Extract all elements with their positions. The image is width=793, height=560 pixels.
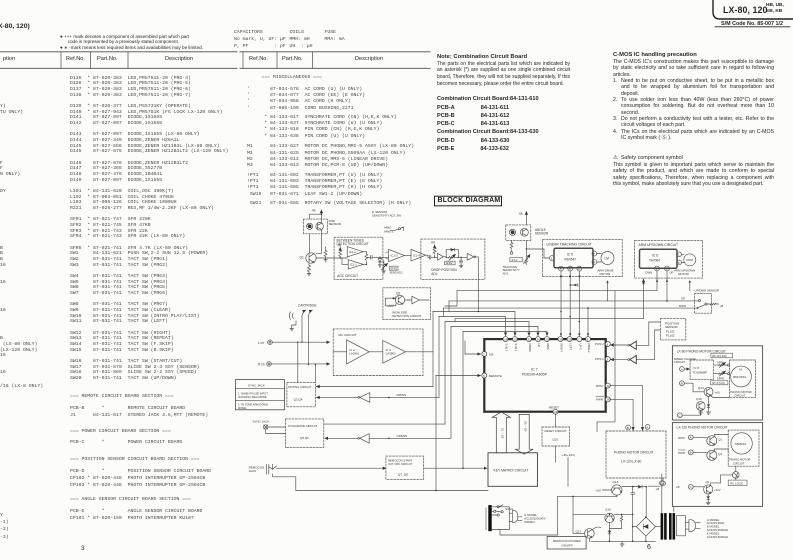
output comparator triangle with bubble	[458, 253, 478, 311]
svg-text:JACK: JACK	[249, 469, 257, 473]
svg-text:1: 1	[551, 256, 553, 260]
ST-4 adj label	[711, 381, 728, 385]
svg-text:DWN: DWN	[646, 271, 653, 275]
input resistor	[385, 298, 396, 306]
svg-text:+B: +B	[312, 208, 316, 212]
smoothing cap to ground	[459, 257, 462, 268]
table 2 header	[249, 56, 268, 62]
svg-text:'L' IN TONE ARM DOWN: 'L' IN TONE ARM DOWN	[238, 403, 268, 407]
svg-text:UP: UP	[670, 271, 674, 275]
SFR5 variable resistor	[714, 371, 730, 380]
svg-text:Q3,Q4: Q3,Q4	[294, 397, 303, 401]
BETWEEN TUNES DETECTION CIRCUIT dashed box	[334, 237, 383, 279]
C-MOS column	[613, 52, 697, 58]
svg-text:+B: +B	[676, 485, 680, 489]
drop position adj dashed box	[421, 239, 485, 279]
svg-text:MC CIRCUIT: MC CIRCUIT	[339, 333, 357, 337]
svg-text:MOTOR: MOTOR	[678, 272, 689, 276]
inverter OPENS	[325, 434, 451, 444]
svg-text:C: C	[679, 414, 681, 418]
muting input wire from bus	[317, 386, 434, 388]
svg-text:DWNS: DWNS	[528, 344, 532, 352]
tracking sensitivity adj	[503, 240, 530, 275]
+B resistor into AGC	[337, 244, 341, 259]
svg-text:LX-120 PHONO MOTOR CIRCUIT: LX-120 PHONO MOTOR CIRCUIT	[677, 425, 728, 429]
svg-text:PWR: PWR	[596, 398, 604, 402]
IC8 dashed	[690, 360, 714, 379]
svg-text:IC 7: IC 7	[531, 368, 538, 372]
svg-text:SENSITIVITY ADJ. SW: SENSITIVITY ADJ. SW	[372, 213, 401, 217]
svg-text:SENS ADJ.: SENS ADJ.	[389, 271, 403, 275]
svg-text:UDM: UDM	[686, 258, 693, 262]
svg-text:PWR: PWR	[678, 451, 685, 455]
svg-text:C: C	[690, 485, 692, 489]
svg-text:REMOCON POWER: REMOCON POWER	[553, 539, 582, 543]
svg-text:+B: +B	[720, 304, 724, 308]
power transformer PT1 core bars	[662, 506, 686, 538]
svg-text:Q2: Q2	[396, 291, 400, 295]
motor dashed box with MMI-5P2A	[730, 360, 756, 398]
svg-text:M: M	[740, 367, 743, 371]
hollow arrow up	[492, 412, 510, 453]
svg-text:4: 4	[593, 260, 595, 264]
remocon power label box	[547, 537, 586, 550]
svg-text:B: B	[627, 426, 629, 430]
svg-text:Q10: Q10	[553, 438, 559, 442]
angle sensor photo interrupter	[506, 225, 549, 241]
R ch jack	[258, 362, 330, 367]
svg-text:SFR5: SFR5	[717, 376, 725, 380]
left pins MS / REMOTE	[482, 352, 502, 379]
svg-text:1: 1	[678, 253, 680, 257]
svg-text:REMOTE: REMOTE	[489, 374, 502, 378]
svg-text:IC1-2: IC1-2	[349, 250, 356, 254]
main +B rail vertical	[645, 486, 647, 517]
IC6 TA7064	[640, 249, 678, 268]
svg-text:RIGHT: RIGHT	[560, 344, 564, 353]
svg-text:IN PHONO REC MODE: IN PHONO REC MODE	[238, 395, 267, 399]
svg-text:MMI-5P2A: MMI-5P2A	[733, 375, 746, 379]
pin A	[680, 367, 690, 372]
svg-text:+5V: +5V	[595, 489, 602, 493]
pin B	[680, 381, 705, 392]
svg-text:UP-2: UP-2	[578, 344, 582, 351]
pin C	[677, 410, 700, 417]
pins bottom 5,6,2	[559, 266, 564, 271]
svg-text:ST-2: ST-2	[512, 258, 518, 262]
svg-text:DWN: DWN	[679, 304, 686, 308]
coupling capacitor	[366, 256, 376, 260]
transistor Q16	[696, 397, 705, 410]
svg-text:IC1-3: IC1-3	[391, 254, 398, 258]
PC LOCK label	[728, 480, 747, 485]
svg-text:CUT OFF CIRCUIT: CUT OFF CIRCUIT	[388, 462, 412, 466]
svg-text:MWNS: MWNS	[397, 393, 407, 397]
svg-text:Q4: Q4	[706, 480, 710, 484]
model number rounded frame	[713, 0, 793, 19]
Note column	[437, 54, 527, 60]
top pin labels (vertical)	[505, 344, 592, 353]
bottom rail + ground	[591, 541, 655, 547]
svg-text:MS: MS	[489, 352, 494, 356]
wire sensor to Q1	[310, 230, 322, 253]
svg-text:LINEAR TRACKING CIRCUIT: LINEAR TRACKING CIRCUIT	[547, 242, 592, 246]
table 1 header	[3, 56, 15, 62]
svg-text:MODE: MODE	[238, 406, 246, 410]
svg-text:UP/DWN SENSOR: UP/DWN SENSOR	[695, 289, 720, 293]
transistor Q17	[573, 496, 601, 541]
SFR2 variable resistor	[445, 254, 459, 265]
voltage selector SW21	[486, 505, 546, 530]
svg-text:UP: UP	[537, 344, 541, 348]
SFR6 variable resistor	[714, 361, 730, 368]
model number box top right	[723, 5, 768, 15]
transistor Q14	[698, 386, 730, 402]
shunt diode to ground	[376, 257, 388, 267]
sync jack legend table	[235, 380, 284, 410]
emitter resistor of Q1	[307, 263, 310, 276]
sync jack symbol	[253, 420, 286, 434]
svg-text:Q16: Q16	[696, 397, 702, 401]
svg-text:Q1: Q1	[300, 255, 304, 259]
svg-text:+6V: +6V	[715, 390, 720, 394]
svg-text:S-IN 2: S-IN 2	[505, 344, 509, 352]
svg-text:MUTING CIRCUIT: MUTING CIRCUIT	[288, 385, 311, 389]
wires from bottom pins down to IC7	[560, 271, 589, 336]
pin 1 left	[549, 256, 554, 261]
svg-text:SENSOR: SENSOR	[535, 232, 549, 236]
AC plug symbol	[685, 518, 728, 539]
svg-text:ADJ.: ADJ.	[503, 272, 509, 276]
pins 2,3 bottom	[655, 266, 660, 271]
PWR wire to phono motor box (B)	[610, 399, 633, 430]
svg-text:SYNCHRATE CIRCUIT: SYNCHRATE CIRCUIT	[288, 424, 317, 428]
svg-text:PD6100-A605P: PD6100-A605P	[522, 373, 548, 377]
pin C +B (120)	[676, 484, 704, 489]
arm up/down motor UDM	[674, 254, 696, 276]
svg-text:+B(+12V): +B(+12V)	[562, 453, 575, 457]
bus wires to IC7 top pins	[433, 311, 580, 469]
L ch jack	[258, 340, 330, 345]
svg-text:UP: UP	[681, 297, 685, 301]
diode below Q15	[608, 523, 611, 542]
resistor after IC1-2	[363, 252, 368, 265]
svg-text:ARM UP/DOWN CIRCUIT: ARM UP/DOWN CIRCUIT	[639, 243, 679, 247]
SFR1 sens adj variable resistor	[382, 261, 404, 275]
svg-text:POS 2: POS 2	[595, 342, 604, 346]
sensor emitter resistor to ground	[510, 240, 513, 254]
(C) +B pin under box	[661, 481, 666, 486]
svg-text:SENSOR: SENSOR	[665, 325, 679, 329]
diode bridge rectifier	[633, 516, 661, 542]
svg-text:50/60Hz: 50/60Hz	[524, 520, 535, 524]
coupling cap after IC1-4	[426, 255, 433, 259]
remocon jack	[249, 464, 488, 490]
svg-text:B: B	[681, 382, 683, 386]
svg-text:Q1: Q1	[718, 437, 722, 441]
svg-text:SYNC JACK: SYNC JACK	[253, 420, 270, 424]
svg-text:7: 7	[593, 252, 595, 256]
IC5 RS4547	[554, 248, 593, 268]
motor dashed box S50M4A	[728, 430, 759, 466]
svg-text:SYNC JACK: SYNC JACK	[248, 383, 265, 387]
pins 1,8 right	[677, 252, 682, 257]
FG coil / pickup	[733, 466, 740, 480]
svg-text:LX-80 PHONO MOTOR CIRCUIT: LX-80 PHONO MOTOR CIRCUIT	[677, 349, 726, 353]
svg-text:RESET: RESET	[549, 406, 559, 410]
svg-text:+B: +B	[431, 241, 435, 245]
svg-text:A: A	[681, 367, 683, 371]
svg-text:PL102: PL102	[666, 333, 675, 337]
bottom pin RESET	[549, 406, 559, 415]
synchrate top feed wire	[324, 423, 445, 425]
+B branch circle	[660, 474, 664, 514]
svg-text:IC1-4: IC1-4	[413, 253, 420, 257]
MC CIRCUIT dashed box	[333, 329, 423, 376]
synchrate circuit Q5,Q6	[285, 419, 323, 448]
diode near Q16	[699, 402, 711, 414]
feedback diode loop	[446, 248, 460, 258]
svg-text:TA7064: TA7064	[649, 258, 660, 262]
left edge cut fragments	[0, 104, 23, 115]
svg-text:S50M4A: S50M4A	[735, 442, 746, 446]
table 2 header rules	[240, 52, 430, 69]
svg-text:+12V: +12V	[714, 488, 721, 492]
svg-text:Q14: Q14	[698, 386, 704, 390]
svg-text:SENSOR: SENSOR	[329, 222, 341, 226]
svg-text:RPM: RPM	[678, 436, 685, 440]
svg-text:LEFT: LEFT	[569, 344, 573, 351]
svg-text:S6 ~ S9: S6 ~ S9	[524, 421, 528, 432]
transistor Q2	[395, 291, 404, 304]
diode after Q13	[639, 485, 643, 488]
svg-text:LM: LM	[605, 257, 610, 261]
bias resistor R to ground	[316, 247, 347, 262]
svg-text:MOTOR: MOTOR	[600, 272, 611, 276]
+B resistor drop position	[431, 241, 436, 258]
svg-text:LA3900: LA3900	[386, 352, 396, 356]
svg-text:S1 ~ S5: S1 ~ S5	[501, 428, 505, 439]
svg-text:A: A	[646, 425, 648, 429]
arm bus wires	[444, 271, 699, 322]
amp IC4 LA3900	[369, 341, 433, 364]
svg-text:Q5,Q6: Q5,Q6	[300, 436, 309, 440]
svg-text:IC 8: IC 8	[693, 366, 699, 370]
key matrix circuit box	[488, 453, 538, 487]
svg-text:'L' WHEN PULSE INPUT: 'L' WHEN PULSE INPUT	[238, 391, 268, 395]
svg-text:+B: +B	[656, 487, 660, 491]
arm drive motor LM	[597, 252, 614, 301]
svg-text:CIRCUIT: CIRCUIT	[734, 394, 746, 398]
svg-text:AC240V,50/60Hz: AC240V,50/60Hz	[707, 535, 729, 539]
wow output buffer	[405, 296, 429, 304]
svg-text:CARTRIDGE: CARTRIDGE	[298, 304, 317, 308]
MWO switch	[372, 210, 404, 234]
svg-text:Q13: Q13	[613, 480, 619, 484]
op-amp IC1-3	[386, 249, 404, 261]
BLOCK DIAGRAM label	[438, 197, 501, 204]
svg-text:KEY MATRIX CIRCUIT: KEY MATRIX CIRCUIT	[494, 469, 529, 473]
pins 7,4 right	[592, 251, 597, 256]
muting circuit Q3,Q4	[287, 383, 315, 407]
svg-text:RS4547: RS4547	[565, 257, 577, 261]
op-amp IC1-2	[347, 247, 363, 257]
MS / REMOTE stubs	[465, 353, 481, 355]
pin A RPM	[678, 435, 707, 440]
svg-text:SFR2: SFR2	[446, 261, 453, 265]
svg-text:Q15: Q15	[605, 507, 611, 511]
diode below Q4	[706, 494, 710, 505]
transistor Q13	[595, 480, 638, 496]
svg-text:LX-120,LX-80: LX-120,LX-80	[621, 460, 642, 464]
svg-text:DWN-2: DWN-2	[587, 344, 591, 353]
svg-text:RESET CIRCUIT: RESET CIRCUIT	[545, 429, 567, 433]
RPM wire to phono motor box (A)	[610, 386, 650, 431]
svg-text:B: B	[690, 451, 692, 455]
svg-text:LA3401: LA3401	[349, 352, 359, 356]
TEXTS	[0, 23, 30, 30]
+B feed for disk sensor	[310, 208, 322, 222]
aux wire from bus down to +B elbow	[597, 291, 615, 432]
svg-text:+B: +B	[519, 212, 523, 216]
disk sensor (photo interrupter above Q1)	[303, 219, 341, 234]
table 2 rows	[247, 75, 322, 81]
transistor Q1	[300, 253, 317, 263]
svg-text:C: C	[661, 481, 663, 485]
pin B PWR	[678, 450, 707, 455]
hollow arrow down	[515, 414, 533, 454]
svg-text:ST-4 (U,K): ST-4 (U,K)	[712, 381, 725, 385]
audio taps down to muting	[297, 342, 316, 383]
svg-text:CIRCUIT: CIRCUIT	[674, 360, 686, 364]
svg-text:CIRCUIT: CIRCUIT	[733, 461, 745, 465]
transistor Q4	[704, 475, 733, 494]
table 1 rows	[70, 76, 191, 99]
table 1 header rules	[0, 52, 237, 69]
transistor Q15	[573, 507, 633, 522]
feed wire from +B elbow to Q13 base	[558, 495, 617, 496]
svg-text:R ch: R ch	[258, 363, 265, 367]
transistor Q1 (120)	[707, 435, 728, 446]
top pins	[503, 337, 591, 342]
svg-text:AGC CIRCUIT: AGC CIRCUIT	[337, 274, 358, 278]
remocon start cut off circuit Q7,Q8	[386, 456, 424, 479]
svg-text:Q2: Q2	[718, 452, 722, 456]
svg-text:MWO L: MWO L	[384, 230, 394, 234]
svg-text:A: A	[690, 436, 692, 440]
svg-text:DETECTION CIRCUIT: DETECTION CIRCUIT	[392, 314, 421, 318]
svg-text:POS 1: POS 1	[595, 357, 604, 361]
svg-text:RMS: RMS	[546, 344, 550, 350]
svg-text:IC1-1: IC1-1	[350, 263, 357, 267]
right pins POS2 POS1 RPM PWR	[595, 342, 610, 402]
svg-text:84-131-620: 84-131-620	[712, 354, 727, 358]
svg-text:8: 8	[678, 261, 680, 265]
svg-text:IC 6: IC 6	[652, 254, 658, 258]
op-amp IC1-1	[342, 258, 363, 269]
svg-text:ON/OFF: ON/OFF	[562, 543, 573, 547]
svg-text:OPENS: OPENS	[397, 434, 408, 438]
svg-text:DETECTION CIRCUIT: DETECTION CIRCUIT	[337, 242, 369, 246]
resistor right of Q15	[610, 514, 623, 529]
inverter MWNS	[317, 393, 440, 403]
svg-text:PC LOCK: PC LOCK	[730, 481, 743, 485]
svg-text:SFR1: SFR1	[390, 266, 397, 270]
svg-text:L ch: L ch	[258, 341, 264, 345]
WOW SIZE DETECTION CIRCUIT	[383, 288, 431, 320]
op-amp IC1-4	[404, 249, 425, 261]
svg-text:RPM: RPM	[596, 384, 603, 388]
svg-text:S-IN 1: S-IN 1	[514, 344, 518, 352]
BLOCK DIAGRAM label frame	[435, 196, 502, 206]
svg-text:ADJ.: ADJ.	[431, 272, 438, 276]
SW21 to supply wires	[500, 496, 558, 535]
svg-text:IC 5: IC 5	[567, 253, 573, 257]
wire sensor to linear tracking pin 1	[526, 249, 549, 258]
svg-text:Q7, Q8: Q7, Q8	[398, 472, 408, 476]
svg-text:TC4066BP: TC4066BP	[692, 371, 707, 375]
transistor Q2 (120)	[707, 449, 728, 460]
svg-text:PHONO MOTOR CIRCUIT: PHONO MOTOR CIRCUIT	[614, 451, 654, 455]
buffer triangle	[433, 253, 446, 260]
base diode arrow	[389, 297, 395, 300]
amp IC2 LA3401	[333, 340, 369, 364]
POS wires through inverters to position sensor	[611, 322, 661, 364]
filter capacitor	[631, 486, 635, 542]
cartridge	[289, 304, 316, 365]
svg-text:Q17: Q17	[576, 529, 582, 533]
